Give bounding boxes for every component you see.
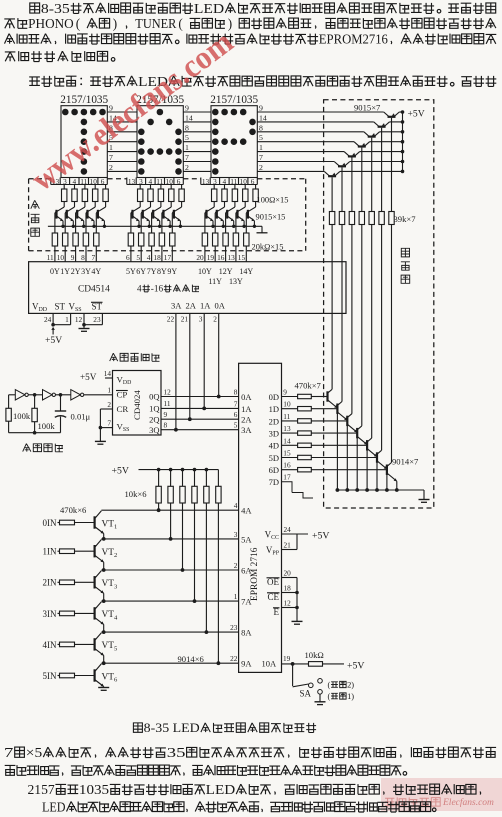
svg-text:2D: 2D: [269, 416, 279, 426]
svg-text:21: 21: [284, 541, 292, 550]
svg-text:6Y: 6Y: [136, 267, 146, 276]
svg-text:ST: ST: [92, 302, 103, 312]
svg-text:E: E: [274, 607, 280, 617]
svg-text:11: 11: [156, 177, 163, 186]
svg-text:0A: 0A: [241, 392, 252, 402]
svg-text:Elecfans.com: Elecfans.com: [442, 797, 494, 808]
svg-text:9: 9: [164, 410, 168, 419]
svg-text:4IN: 4IN: [43, 640, 57, 650]
svg-text:3Y: 3Y: [81, 267, 91, 276]
svg-text:3: 3: [234, 530, 238, 539]
svg-text:15: 15: [283, 449, 291, 458]
svg-text:9A: 9A: [241, 659, 252, 669]
svg-text:13: 13: [202, 177, 210, 186]
svg-text:2: 2: [114, 552, 117, 559]
svg-text:PHONO: PHONO: [28, 16, 73, 31]
svg-text:+5V: +5V: [45, 335, 62, 346]
svg-text:2Q: 2Q: [149, 414, 159, 424]
svg-text:5: 5: [136, 253, 140, 262]
svg-text:9014×7: 9014×7: [392, 457, 419, 467]
svg-text:10A: 10A: [262, 659, 278, 669]
svg-text:11: 11: [164, 399, 171, 408]
svg-text:7: 7: [107, 418, 111, 427]
svg-text:4: 4: [234, 501, 238, 510]
svg-text:VT: VT: [102, 610, 115, 620]
svg-text:PP: PP: [272, 551, 279, 557]
svg-text:11: 11: [80, 177, 87, 186]
svg-text:24: 24: [284, 525, 292, 534]
svg-text:3A: 3A: [171, 301, 182, 311]
svg-text:2: 2: [234, 561, 238, 570]
svg-text:22: 22: [167, 314, 175, 323]
svg-text:8-35: 8-35: [41, 1, 70, 16]
svg-text:8: 8: [234, 388, 238, 397]
svg-text:8-35 LED: 8-35 LED: [144, 721, 200, 735]
svg-text:10: 10: [57, 253, 65, 262]
svg-text:6: 6: [251, 177, 255, 186]
svg-text:20kΩ×15: 20kΩ×15: [252, 243, 284, 252]
svg-text:15: 15: [238, 253, 246, 262]
svg-text:LED: LED: [42, 799, 66, 814]
svg-text:7: 7: [4, 745, 14, 760]
svg-text:6D: 6D: [269, 465, 279, 475]
svg-text:100k: 100k: [38, 421, 56, 431]
svg-text:8A: 8A: [241, 628, 252, 638]
svg-text:+5V: +5V: [408, 109, 425, 120]
svg-text:1: 1: [259, 143, 263, 152]
svg-text:16: 16: [283, 461, 291, 470]
svg-text:(: (: [328, 681, 331, 690]
svg-text:0.01μ: 0.01μ: [71, 412, 91, 422]
svg-text:4: 4: [147, 253, 151, 262]
svg-text:1A: 1A: [200, 301, 211, 311]
svg-text:16: 16: [217, 253, 225, 262]
svg-text:7: 7: [185, 153, 189, 162]
svg-text:1): 1): [347, 692, 354, 701]
svg-text:14: 14: [283, 436, 291, 445]
svg-text:(: (: [328, 692, 331, 701]
svg-text:5Y: 5Y: [126, 267, 136, 276]
svg-text:2157: 2157: [28, 782, 56, 797]
svg-text:VT: VT: [102, 579, 115, 589]
svg-text:19: 19: [207, 253, 215, 262]
svg-text:2A: 2A: [241, 415, 252, 425]
svg-text:OE: OE: [267, 577, 279, 587]
svg-text:1: 1: [107, 386, 111, 395]
svg-text:2): 2): [347, 681, 354, 690]
svg-text:1: 1: [234, 592, 238, 601]
svg-text:17: 17: [283, 473, 291, 482]
svg-text:5IN: 5IN: [43, 671, 57, 681]
svg-text:2157/1035: 2157/1035: [210, 94, 258, 106]
svg-text:0D: 0D: [269, 392, 279, 402]
svg-text:5: 5: [234, 421, 238, 430]
svg-text:2157/1035: 2157/1035: [60, 94, 108, 106]
svg-text:4A: 4A: [241, 506, 252, 516]
svg-text:+5V: +5V: [312, 530, 330, 541]
svg-text:3: 3: [114, 583, 118, 590]
svg-text:4: 4: [222, 177, 226, 186]
svg-text:9: 9: [71, 253, 75, 262]
svg-text:CR: CR: [117, 404, 129, 414]
svg-text:11Y: 11Y: [208, 277, 222, 286]
svg-text:11: 11: [47, 253, 54, 262]
svg-text:13: 13: [228, 253, 236, 262]
svg-text:9: 9: [259, 104, 263, 113]
svg-text:3: 3: [199, 314, 203, 323]
svg-text:13: 13: [283, 424, 291, 433]
svg-text:14Y: 14Y: [239, 267, 253, 276]
svg-text:3: 3: [139, 177, 143, 186]
svg-text:9: 9: [185, 104, 189, 113]
svg-text:CD4024: CD4024: [132, 390, 142, 420]
svg-text:18: 18: [154, 253, 162, 262]
svg-text:1A: 1A: [241, 404, 252, 414]
svg-text:VT: VT: [102, 519, 115, 529]
svg-text:DD: DD: [39, 307, 48, 313]
svg-text:20: 20: [284, 569, 292, 578]
svg-text:8: 8: [259, 123, 263, 132]
svg-text:4: 4: [137, 284, 142, 294]
svg-text:10Y: 10Y: [198, 267, 212, 276]
svg-text:1IN: 1IN: [43, 547, 57, 557]
svg-text:): ): [113, 16, 117, 31]
svg-text:SS: SS: [75, 307, 82, 313]
svg-text:-16: -16: [151, 284, 164, 294]
svg-text:12: 12: [284, 599, 292, 608]
svg-text:1: 1: [114, 524, 117, 531]
svg-text:4D: 4D: [269, 441, 279, 451]
svg-text:20: 20: [196, 253, 204, 262]
svg-text:12Y: 12Y: [219, 267, 233, 276]
svg-text:8: 8: [185, 123, 189, 132]
svg-text:14: 14: [259, 113, 267, 122]
svg-text:+5V: +5V: [347, 660, 365, 671]
svg-text:10: 10: [283, 400, 291, 409]
svg-text:8: 8: [164, 421, 168, 430]
svg-text:2A: 2A: [186, 301, 197, 311]
svg-text:10: 10: [90, 177, 98, 186]
svg-text:ST: ST: [55, 302, 66, 312]
svg-text:): ): [228, 16, 232, 31]
svg-text:VT: VT: [102, 548, 115, 558]
svg-text:TUNER: TUNER: [135, 16, 176, 31]
svg-text:0A: 0A: [215, 301, 226, 311]
svg-text:6: 6: [177, 177, 181, 186]
svg-text:7: 7: [109, 153, 113, 162]
svg-text:7: 7: [234, 399, 238, 408]
svg-text:24: 24: [44, 315, 52, 324]
svg-text:39k×7: 39k×7: [394, 214, 417, 224]
svg-text:2IN: 2IN: [43, 578, 57, 588]
svg-text:12: 12: [75, 315, 83, 324]
svg-text:6: 6: [101, 177, 105, 186]
svg-text:7Y: 7Y: [147, 267, 157, 276]
svg-text:4: 4: [148, 177, 152, 186]
svg-text:35: 35: [167, 745, 186, 760]
svg-text:8Y: 8Y: [157, 267, 167, 276]
svg-text:www.elecfans.com: www.elecfans.com: [25, 24, 240, 198]
svg-text:3: 3: [213, 177, 217, 186]
svg-text:DD: DD: [123, 380, 131, 386]
svg-text:VT: VT: [102, 641, 115, 651]
svg-text:5: 5: [114, 645, 118, 652]
svg-text:23: 23: [230, 623, 238, 632]
svg-text:2: 2: [109, 163, 113, 172]
svg-text:9015×7: 9015×7: [354, 102, 381, 112]
svg-text:17: 17: [164, 253, 172, 262]
svg-text:11: 11: [283, 412, 290, 421]
svg-text:1Q: 1Q: [149, 404, 159, 414]
svg-text:2: 2: [259, 163, 263, 172]
svg-text:13Y: 13Y: [229, 277, 243, 286]
svg-text:1: 1: [65, 315, 69, 324]
svg-text:4: 4: [114, 614, 118, 621]
svg-text:2: 2: [107, 400, 111, 409]
svg-text:0Y: 0Y: [50, 267, 60, 276]
svg-text:3Q: 3Q: [149, 425, 159, 435]
svg-text:7: 7: [259, 153, 263, 162]
svg-text:12: 12: [164, 387, 172, 396]
svg-text:1D: 1D: [269, 404, 279, 414]
svg-text:SA: SA: [300, 689, 312, 699]
svg-text:470k×7: 470k×7: [295, 381, 322, 391]
svg-text:1: 1: [185, 143, 189, 152]
svg-text:(: (: [76, 16, 80, 31]
svg-text:(: (: [178, 16, 182, 31]
svg-text:100k: 100k: [13, 411, 31, 421]
svg-text:7D: 7D: [269, 477, 279, 487]
svg-text:EPROM2716: EPROM2716: [319, 32, 388, 47]
svg-text:CD4514: CD4514: [78, 285, 110, 295]
svg-text:18: 18: [284, 584, 292, 593]
svg-text:6A: 6A: [241, 565, 252, 575]
svg-text:9015×15: 9015×15: [256, 212, 286, 221]
svg-text:5: 5: [185, 133, 189, 142]
svg-text:3IN: 3IN: [43, 609, 57, 619]
svg-text:14: 14: [104, 369, 112, 378]
svg-text:LED: LED: [194, 1, 224, 16]
svg-text:CE: CE: [268, 592, 280, 602]
svg-text:2Y: 2Y: [71, 267, 81, 276]
svg-text:0Q: 0Q: [149, 392, 159, 402]
svg-text:CC: CC: [271, 535, 279, 541]
svg-text:VT: VT: [102, 672, 115, 682]
svg-text:EPROM 2716: EPROM 2716: [250, 547, 260, 601]
svg-text:5A: 5A: [241, 534, 252, 544]
svg-text:1035: 1035: [79, 782, 110, 797]
svg-text:19: 19: [283, 654, 291, 663]
svg-text:5D: 5D: [269, 453, 279, 463]
svg-text:14: 14: [185, 113, 193, 122]
svg-text:6: 6: [234, 410, 238, 419]
svg-text:11: 11: [230, 177, 237, 186]
svg-text:8: 8: [81, 253, 85, 262]
svg-text:13: 13: [128, 177, 136, 186]
svg-text:2: 2: [213, 314, 217, 323]
svg-text:10: 10: [240, 177, 248, 186]
svg-text:23: 23: [93, 315, 101, 324]
svg-text:4Y: 4Y: [91, 267, 101, 276]
svg-text:3A: 3A: [241, 425, 252, 435]
svg-text:10: 10: [166, 177, 174, 186]
svg-text:6: 6: [126, 253, 130, 262]
svg-text:7A: 7A: [241, 597, 252, 607]
svg-text:0IN: 0IN: [43, 518, 57, 528]
svg-text:+5V: +5V: [112, 465, 130, 476]
svg-text:5: 5: [259, 133, 263, 142]
svg-text:×5: ×5: [26, 745, 43, 760]
svg-text:+5V: +5V: [80, 372, 97, 382]
svg-text:2: 2: [185, 163, 189, 172]
svg-text:3D: 3D: [269, 429, 279, 439]
svg-text:9: 9: [283, 388, 287, 397]
svg-text:9014×6: 9014×6: [178, 654, 205, 664]
svg-text:SS: SS: [123, 427, 129, 433]
svg-text:470k×6: 470k×6: [60, 505, 87, 515]
svg-text:22: 22: [230, 654, 238, 663]
svg-text:9Y: 9Y: [167, 267, 177, 276]
svg-text:7: 7: [91, 253, 95, 262]
svg-text:LED: LED: [206, 782, 236, 797]
svg-text:10k×6: 10k×6: [125, 489, 148, 499]
svg-text:100Ω×15: 100Ω×15: [257, 195, 289, 204]
svg-text:6: 6: [114, 677, 118, 684]
svg-text:10kΩ: 10kΩ: [305, 650, 324, 660]
svg-text:21: 21: [181, 314, 189, 323]
svg-text:1Y: 1Y: [60, 267, 70, 276]
